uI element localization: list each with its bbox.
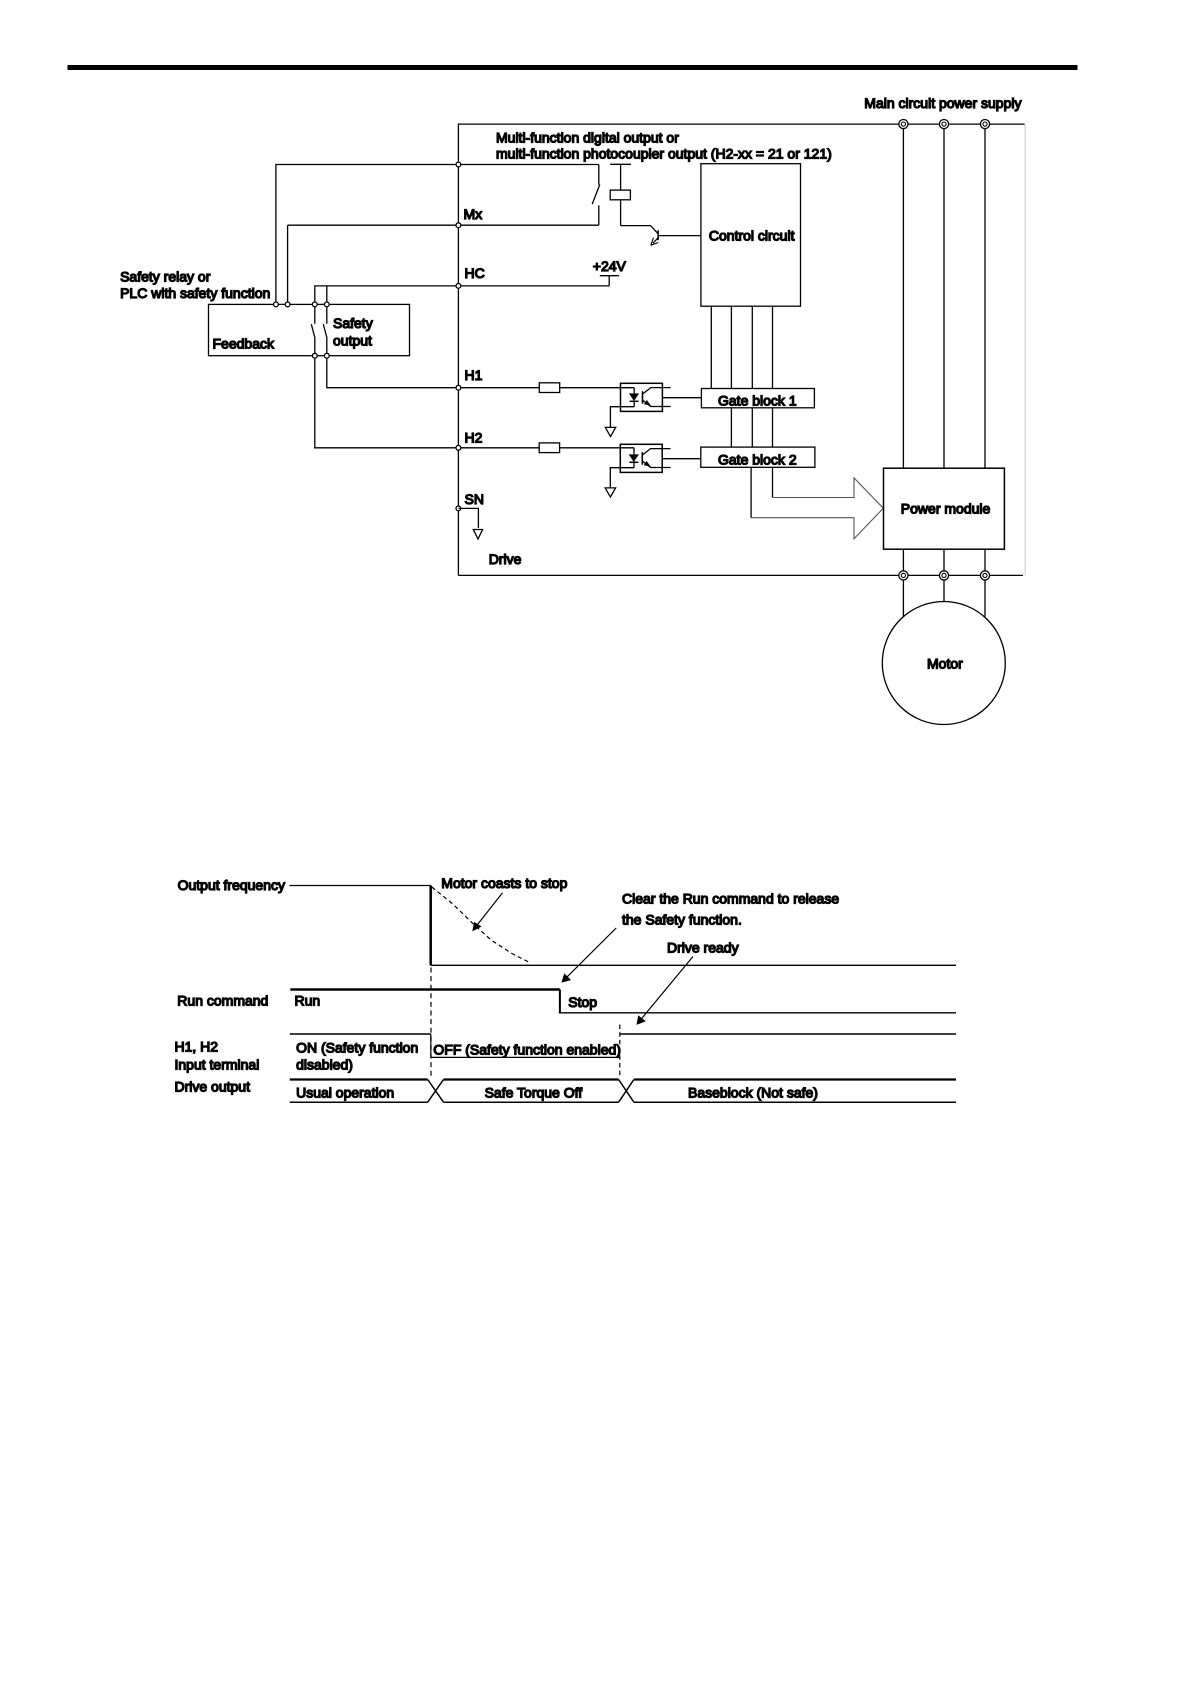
wire HC rail: [315, 286, 609, 305]
safety relay box: [209, 304, 410, 355]
dashed timeline t1: [430, 968, 432, 1079]
motor coast decay curve: [432, 887, 531, 963]
wire power line S: [943, 129, 945, 602]
wire H1H2 on high 1: [290, 1033, 431, 1035]
terminal U bottom: [899, 571, 908, 580]
optocoupler 1 LED: [629, 388, 639, 407]
wire coil to transistor: [621, 226, 658, 234]
svg-text:Mx: Mx: [464, 206, 483, 222]
svg-text:Drive: Drive: [489, 551, 522, 567]
resistor on H2: [539, 443, 559, 453]
svg-text:Safe Torque Off: Safe Torque Off: [485, 1084, 583, 1100]
svg-text:Output frequency: Output frequency: [178, 877, 285, 893]
relay coil (photocoupler output): [610, 164, 631, 225]
gate block 2 box: [701, 447, 815, 467]
crossover X2: [619, 1080, 634, 1103]
wire gate block 2 outputs to power module arrow: [751, 467, 772, 517]
ground arrow SN: [473, 530, 482, 540]
safety contact 2: [323, 304, 327, 355]
wire opto 1 output to gate block 1: [662, 397, 701, 399]
terminal S top: [939, 120, 948, 129]
wire run command fall edge: [559, 990, 561, 1013]
drive output band top: [290, 1078, 956, 1080]
optocoupler 2 phototransistor: [642, 449, 670, 468]
resistor on H1: [539, 383, 559, 393]
power module box: [884, 468, 1005, 549]
optocoupler 2 LED: [629, 448, 639, 468]
optocoupler 1 phototransistor: [643, 388, 671, 407]
wire gate signals control circuit to gate block 1: [711, 306, 772, 388]
node circles on relay box: [274, 302, 330, 358]
arrow to decay curve: [472, 893, 502, 932]
svg-text:multi-function photocoupler ou: multi-function photocoupler output (H2-x…: [496, 145, 832, 161]
safety contact 1: [311, 304, 315, 355]
header rule: [68, 65, 1078, 70]
label Clear the Run command: [622, 890, 839, 927]
wire contact 2 to H1 rail: [327, 356, 634, 388]
svg-text:Multi-function digital output: Multi-function digital output or: [496, 129, 679, 145]
svg-text:Drive output: Drive output: [175, 1079, 251, 1095]
svg-text:ON (Safety function: ON (Safety function: [296, 1039, 418, 1055]
svg-text:H1, H2: H1, H2: [175, 1038, 219, 1054]
terminal V bottom: [939, 571, 948, 580]
svg-text:SN: SN: [465, 491, 484, 507]
ground arrow opto 1: [605, 427, 615, 436]
label H1 H2 Input terminal: [175, 1038, 260, 1072]
svg-text:Usual operation: Usual operation: [296, 1085, 394, 1101]
svg-text:output: output: [333, 333, 372, 349]
svg-text:Main circuit power supply: Main circuit power supply: [864, 95, 1021, 111]
label Safety output: [333, 315, 373, 349]
wire output frequency high: [290, 885, 431, 887]
svg-text:OFF (Safety function enabled): OFF (Safety function enabled): [433, 1042, 621, 1058]
wire H1H2 fall edge: [430, 1034, 432, 1057]
svg-text:Run command: Run command: [177, 993, 268, 1009]
svg-text:Input terminal: Input terminal: [175, 1057, 260, 1073]
svg-text:Gate block 2: Gate block 2: [718, 452, 797, 468]
ground arrow opto 2: [605, 488, 615, 497]
block arrow into power module: [751, 478, 883, 539]
terminal T top: [980, 120, 989, 129]
wire H1H2 off low: [431, 1056, 620, 1058]
wire gate signals gate block 1 to gate block 2: [731, 408, 772, 447]
svg-text:H2: H2: [465, 430, 483, 446]
transistor (output photocoupler): [651, 230, 701, 245]
svg-text:Power module: Power module: [901, 501, 991, 517]
wire contact 1 to H2 rail: [315, 356, 634, 448]
node terminals on drive edge: [456, 162, 461, 511]
svg-text:HC: HC: [465, 265, 485, 281]
svg-text:disabled): disabled): [296, 1057, 353, 1073]
svg-text:the Safety function.: the Safety function.: [622, 911, 742, 927]
wire output frequency drop edge: [429, 886, 432, 966]
control circuit box U1: [701, 164, 801, 307]
arrow to drive ready point: [637, 957, 694, 1025]
label ON Safety function disabled: [296, 1039, 418, 1072]
svg-text:Baseblock (Not safe): Baseblock (Not safe): [688, 1085, 818, 1101]
wire H1H2 on high 2: [620, 1033, 956, 1035]
svg-text:Drive ready: Drive ready: [667, 940, 739, 956]
svg-text:Motor coasts to stop: Motor coasts to stop: [441, 875, 567, 891]
wire run command high: [290, 988, 560, 991]
label Multi-function output: [496, 129, 832, 161]
relay contact Mx (multi-function output): [592, 165, 600, 226]
svg-text:Control circuit: Control circuit: [709, 228, 795, 244]
wire power line T: [984, 129, 986, 617]
wire run command low: [559, 1012, 956, 1014]
wire opto 1 cathode to ground: [610, 407, 634, 428]
wire opto 2 cathode to ground: [610, 468, 634, 488]
optocoupler 1 box: [621, 383, 663, 411]
svg-text:Stop: Stop: [568, 994, 597, 1010]
crossover X1: [428, 1080, 444, 1103]
svg-text:Motor: Motor: [927, 656, 963, 672]
terminal W bottom: [980, 571, 989, 580]
svg-text:Clear the Run command to relea: Clear the Run command to release: [622, 890, 839, 906]
terminal R top: [899, 120, 908, 129]
wire SN to ground: [458, 508, 478, 528]
svg-text:Safety relay or: Safety relay or: [120, 269, 211, 285]
svg-text:PLC with safety function: PLC with safety function: [120, 285, 270, 301]
svg-text:Run: Run: [295, 993, 321, 1009]
arrow to run stop edge: [562, 928, 617, 983]
+24V supply tap: [600, 276, 619, 286]
dashed rise edge t2: [619, 1025, 621, 1079]
wire feedback 1 to top rail: [276, 165, 599, 305]
wire feedback 2 to Mx rail: [288, 225, 599, 304]
svg-text:+24V: +24V: [593, 258, 627, 274]
wire output frequency low: [431, 964, 956, 966]
drive enclosure box: [458, 123, 1025, 575]
drive output band bottom: [290, 1101, 956, 1103]
wire power line R: [902, 129, 904, 617]
wire opto 2 output to gate block 2: [662, 458, 701, 460]
svg-text:Gate block 1: Gate block 1: [718, 393, 797, 409]
optocoupler 2 box: [620, 444, 662, 472]
gate block 1 box: [701, 389, 814, 408]
svg-text:H1: H1: [465, 367, 483, 383]
svg-text:Safety: Safety: [333, 315, 373, 331]
label Safety relay or PLC: [120, 269, 270, 301]
svg-text:Feedback: Feedback: [213, 336, 275, 352]
motor M1: [882, 602, 1005, 725]
